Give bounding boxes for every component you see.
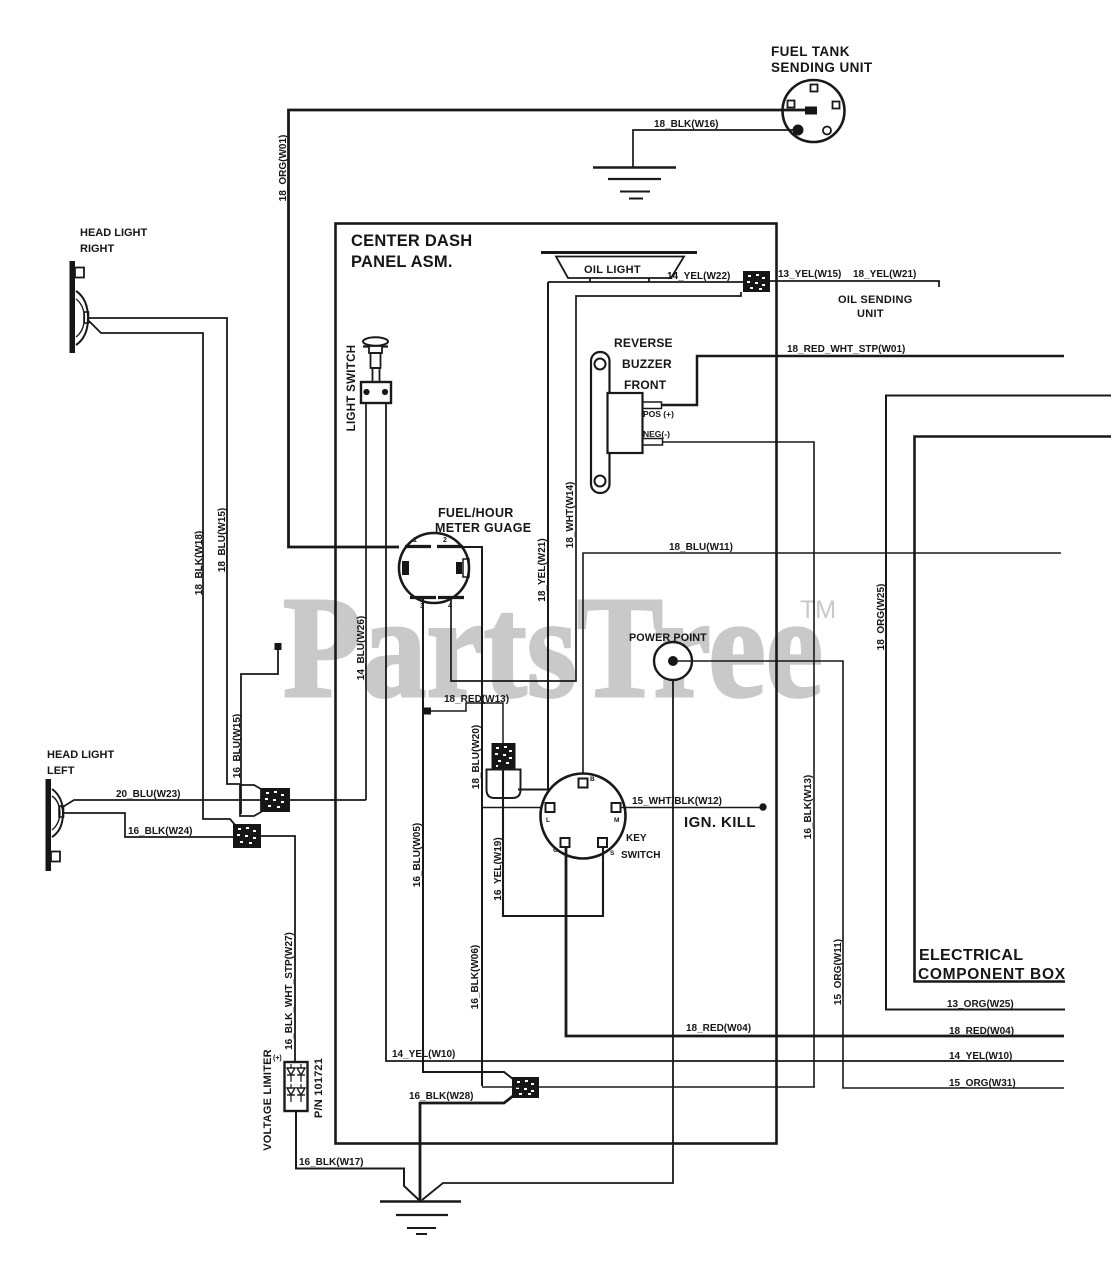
svg-text:SENDING UNIT: SENDING UNIT (771, 60, 873, 75)
wire 18_WHT(W14) gauge pin4 to oil light (451, 292, 741, 681)
svg-text:18_YEL(W21): 18_YEL(W21) (853, 269, 916, 280)
oil light (541, 251, 697, 254)
head light right (70, 261, 76, 353)
electrical component box outer (886, 396, 1111, 1010)
svg-text:18_RED_WHT_STP(W01): 18_RED_WHT_STP(W01) (787, 344, 905, 355)
ground fuel tank (593, 166, 676, 168)
connector key switch black (492, 743, 516, 770)
svg-text:SWITCH: SWITCH (621, 850, 660, 861)
svg-text:POS (+): POS (+) (643, 409, 674, 419)
wire 16_BLK(W24) headlight left ground (63, 813, 233, 837)
svg-text:OIL LIGHT: OIL LIGHT (584, 264, 641, 276)
wire 16_BLK(W13) buzzer NEG (662, 442, 814, 1088)
power point (654, 642, 692, 680)
svg-text:LEFT: LEFT (47, 765, 75, 777)
wire 18_RED(W04) key switch G to component box (566, 846, 1064, 1036)
svg-text:15_ORG(W31): 15_ORG(W31) (949, 1078, 1016, 1089)
wire 18_BLU(W11) key switch B to component box (583, 553, 1061, 779)
svg-text:S: S (610, 850, 615, 857)
svg-text:18_ORG(W01): 18_ORG(W01) (278, 135, 289, 202)
svg-text:VOLTAGE LIMITER: VOLTAGE LIMITER (262, 1049, 274, 1151)
svg-text:FUEL TANK: FUEL TANK (771, 44, 850, 59)
svg-text:IGN. KILL: IGN. KILL (684, 814, 756, 831)
svg-text:KEY: KEY (626, 833, 647, 844)
wire 18_RED_WHT_STP(W01) buzzer POS (661, 356, 1064, 405)
wire 15_ORG(W11) power point to component box (678, 661, 1064, 1088)
svg-text:B: B (590, 776, 595, 783)
wire 18_ORG(W01) headlight feed to fuel gauge (289, 110, 807, 547)
svg-text:18_BLU(W15): 18_BLU(W15) (217, 508, 228, 572)
svg-text:16_BLU(W05): 16_BLU(W05) (412, 823, 423, 887)
svg-text:RIGHT: RIGHT (80, 243, 115, 255)
svg-text:16_BLK_WHT_STP(W27): 16_BLK_WHT_STP(W27) (284, 932, 295, 1050)
svg-text:HEAD LIGHT: HEAD LIGHT (47, 749, 115, 761)
svg-text:16_BLK(W13): 16_BLK(W13) (803, 775, 814, 839)
svg-text:CENTER DASH: CENTER DASH (351, 232, 472, 250)
svg-text:M: M (614, 817, 619, 824)
svg-text:1: 1 (413, 537, 417, 544)
svg-text:4: 4 (448, 603, 452, 610)
svg-text:20_BLU(W23): 20_BLU(W23) (116, 789, 180, 800)
wire 16_BLK(W17) voltage limiter to ground (296, 1111, 419, 1200)
wire 18_BLU(W15) headlight right (88, 318, 240, 784)
svg-text:2: 2 (443, 537, 447, 544)
wire light switch left leg to 20_BLU junction (365, 403, 367, 800)
svg-text:POWER POINT: POWER POINT (629, 632, 707, 644)
wire link to buzzer NEG at bottom (482, 1086, 815, 1088)
light switch (363, 337, 388, 345)
svg-text:L: L (546, 817, 550, 824)
wire 18_BLK(W18) headlight right ground (89, 321, 236, 826)
svg-text:13_ORG(W25): 13_ORG(W25) (947, 999, 1014, 1010)
svg-text:16_BLK(W06): 16_BLK(W06) (470, 945, 481, 1009)
wire 16_YEL(W19) S terminal loop (503, 770, 603, 916)
svg-text:FRONT: FRONT (624, 378, 667, 392)
connector oil light (743, 271, 770, 292)
svg-text:BUZZER: BUZZER (622, 357, 672, 371)
svg-text:14_YEL(W22): 14_YEL(W22) (667, 271, 730, 282)
connector headlight 20_BLU trapezoid housing (240, 785, 261, 816)
svg-text:18_BLK(W16): 18_BLK(W16) (654, 119, 718, 130)
svg-text:14_YEL(W10): 14_YEL(W10) (392, 1049, 455, 1060)
svg-text:18_BLU(W20): 18_BLU(W20) (471, 725, 482, 789)
svg-text:14_YEL(W10): 14_YEL(W10) (949, 1051, 1012, 1062)
center dash panel asm box (336, 224, 777, 1144)
svg-text:ELECTRICAL: ELECTRICAL (919, 947, 1023, 964)
svg-text:18_BLK(W18): 18_BLK(W18) (194, 531, 205, 595)
svg-text:OIL SENDING: OIL SENDING (838, 294, 913, 306)
fuel tank sending unit (783, 80, 845, 142)
svg-text:15_WHT/BLK(W12): 15_WHT/BLK(W12) (632, 796, 722, 807)
svg-text:18_RED(W04): 18_RED(W04) (949, 1026, 1014, 1037)
svg-text:18_YEL(W21): 18_YEL(W21) (537, 538, 548, 601)
wire 14_YEL(W22) oil light to connector (548, 281, 744, 283)
svg-text:18_WHT(W14): 18_WHT(W14) (565, 482, 576, 549)
svg-text:18_BLU(W11): 18_BLU(W11) (669, 542, 733, 553)
connector 16_BLK block (233, 824, 261, 848)
wire 18_BLU(W20) gauge pin2 to key switch L (463, 547, 482, 1086)
wire 18_BLK(W16) fuel sender ground (633, 130, 793, 167)
wire 15_WHT/BLK(W12) ignition kill (620, 807, 760, 809)
electrical component box inner (915, 437, 1111, 982)
svg-text:METER GUAGE: METER GUAGE (435, 521, 531, 535)
wire 16_BLU(W05) gauge pin3 to bottom connector (423, 597, 513, 1079)
wire 16_BLK(W28) ground to bottom connector (420, 1096, 513, 1201)
wire 16_BLK_WHT_STP(W27) to voltage limiter (261, 836, 295, 1062)
svg-text:18_RED(W04): 18_RED(W04) (686, 1023, 751, 1034)
svg-text:REVERSE: REVERSE (614, 336, 673, 350)
svg-text:P/N 101721: P/N 101721 (313, 1058, 325, 1118)
svg-text:13_YEL(W15): 13_YEL(W15) (778, 269, 841, 280)
connector headlight 20_BLU block (261, 788, 290, 812)
svg-text:(+): (+) (273, 1055, 282, 1062)
svg-text:14_BLU(W26): 14_BLU(W26) (356, 616, 367, 680)
wire 18_YEL(W21) oil light down to key connector (518, 282, 548, 790)
svg-text:16_BLK(W24): 16_BLK(W24) (128, 826, 192, 837)
svg-text:NEG(-): NEG(-) (643, 429, 670, 439)
head light left (46, 779, 52, 871)
svg-text:16_YEL(W19): 16_YEL(W19) (493, 837, 504, 900)
svg-text:16_BLK(W28): 16_BLK(W28) (409, 1091, 473, 1102)
wire 14_YEL(W10) light switch to component box (386, 403, 1064, 1061)
wire 18_RED(W13) connector to key switch S (424, 708, 431, 715)
wire 13_YEL(W15) 18_YEL(W21) to oil sending unit (770, 281, 939, 287)
svg-text:G: G (553, 847, 558, 854)
svg-text:PANEL ASM.: PANEL ASM. (351, 253, 453, 271)
connector key switch housing (487, 770, 521, 799)
voltage limiter (285, 1062, 308, 1111)
svg-text:COMPONENT BOX: COMPONENT BOX (918, 966, 1066, 983)
key switch (541, 774, 626, 859)
svg-text:LIGHT SWITCH: LIGHT SWITCH (346, 345, 358, 432)
connector bottom block (512, 1077, 539, 1098)
svg-text:UNIT: UNIT (857, 308, 884, 320)
fuel/hour meter gauge (399, 533, 469, 603)
svg-text:18_ORG(W25): 18_ORG(W25) (876, 584, 887, 651)
svg-text:FUEL/HOUR: FUEL/HOUR (438, 506, 514, 520)
svg-text:18_RED(W13): 18_RED(W13) (444, 694, 509, 705)
svg-text:15_ORG(W11): 15_ORG(W11) (833, 939, 844, 1005)
svg-text:TM: TM (800, 596, 836, 624)
terminal stub 16_BLU(W15) (275, 643, 282, 650)
ground main (380, 1200, 461, 1203)
wire 20_BLU(W23) headlight left to light switch (61, 800, 366, 808)
svg-text:16_BLK(W17): 16_BLK(W17) (299, 1157, 363, 1168)
svg-text:16_BLU(W15): 16_BLU(W15) (232, 714, 243, 778)
reverse buzzer front (591, 352, 610, 493)
svg-text:HEAD LIGHT: HEAD LIGHT (80, 227, 148, 239)
wire power point to ground (422, 680, 673, 1200)
